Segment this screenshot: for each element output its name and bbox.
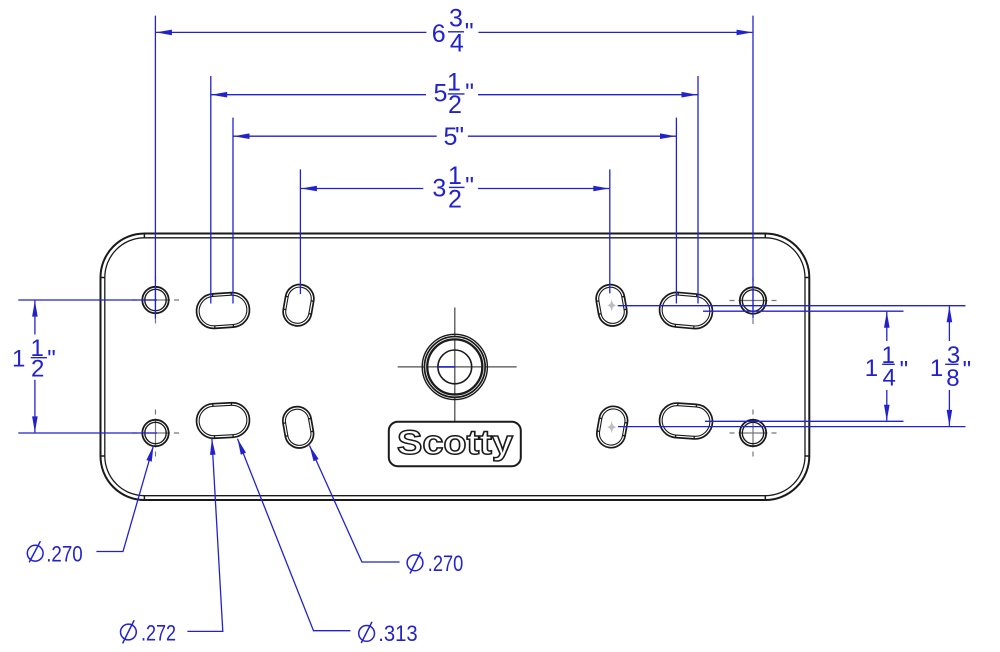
svg-text:": " (455, 122, 464, 150)
svg-text:4: 4 (883, 364, 896, 391)
svg-text:5: 5 (434, 80, 448, 108)
arrow 5-1/2 left (211, 92, 227, 98)
ext line right y421.3 (705, 420, 904, 422)
diameter symbol .270 bottom-left (27, 545, 43, 561)
crosshair top-left hole vertical (155, 277, 157, 324)
arrow 5-1/2 right (682, 92, 698, 98)
svg-text:": " (465, 18, 474, 46)
svg-text:1: 1 (930, 355, 943, 382)
leader dia .272 (187, 439, 222, 632)
ext line 3-1/2 right (609, 169, 611, 293)
ext line 5 right (675, 118, 677, 304)
leader dia .313 (238, 439, 351, 631)
ext line right y311.2 (703, 310, 904, 312)
ext line 6-3/4 left (154, 16, 156, 319)
tilted slot bottom-right (595, 404, 630, 450)
arrow 6-3/4 left (156, 30, 172, 36)
svg-text:3: 3 (449, 5, 463, 33)
svg-text:1: 1 (865, 355, 878, 382)
diameter symbol .272 (120, 624, 136, 640)
arrow 1-3/8 up (947, 306, 953, 322)
crosshair bottom-left hole vertical (155, 410, 157, 457)
svg-text:.270: .270 (46, 541, 82, 566)
crosshair bottom-left hole horizontal (132, 432, 179, 434)
center hole (422, 334, 487, 399)
diameter symbol .270 bottom-right (407, 555, 423, 571)
ext line 5-1/2 left (210, 76, 212, 304)
svg-text:3: 3 (432, 174, 446, 202)
svg-text:2: 2 (448, 91, 462, 119)
center hole crosshair (398, 308, 517, 422)
arrow leader .270 left (146, 446, 153, 462)
ext line 1-1/2 bottom (18, 432, 157, 434)
tilted slot top-left (281, 282, 316, 328)
arrow 1-3/8 down (947, 410, 953, 426)
ext line 3-1/2 left (299, 169, 301, 294)
svg-text:2: 2 (448, 185, 462, 213)
arrow 6-3/4 right (737, 30, 753, 36)
leader dia .270 left (96, 446, 153, 552)
crosshair top-right hole vertical (752, 277, 754, 324)
tilted slot bottom-left (281, 404, 316, 450)
dim line 1-3/8 (948, 306, 950, 341)
arrow leader .272 (210, 439, 216, 455)
ext line 1-1/2 top (18, 299, 157, 301)
svg-text:": " (963, 357, 972, 384)
fraction bar 1/2 left (31, 357, 47, 359)
leader dia .270 right (310, 446, 400, 563)
arrowheads (32, 30, 952, 462)
plate outline (101, 234, 810, 501)
svg-text:4: 4 (450, 29, 464, 57)
center hole blue tick (438, 366, 455, 368)
slot obround bottom-left (196, 402, 251, 439)
svg-text:.272: .272 (141, 620, 176, 645)
svg-text:8: 8 (946, 365, 959, 392)
slot obround top-left (195, 291, 250, 329)
dimension texts (12, 5, 971, 392)
tilted slot top-right (594, 282, 629, 328)
svg-text:1: 1 (12, 345, 25, 372)
svg-text:.270: .270 (428, 551, 464, 576)
arrow 3-1/2 left (301, 186, 317, 192)
svg-text:.313: .313 (378, 621, 418, 646)
svg-text:": " (465, 172, 474, 200)
circle hole top-left (142, 287, 168, 313)
arrow 1-1/4 down (884, 405, 890, 421)
star marker bottom-right slot (607, 421, 616, 434)
svg-text:6: 6 (432, 20, 446, 48)
star marker top-right slot (607, 299, 616, 312)
fraction bar 3/4 (448, 31, 464, 33)
svg-text:": " (900, 357, 909, 384)
leader texts (46, 541, 463, 646)
arrow 1-1/2 down (32, 416, 38, 432)
arrow leader .313 (238, 439, 246, 455)
crosshair top-left hole horizontal (132, 299, 179, 301)
ext line 6-3/4 right (752, 16, 754, 319)
dim line 1-1/4 (886, 312, 888, 341)
arrow leader .270 right (310, 446, 319, 462)
svg-text:Scotty: Scotty (397, 424, 513, 462)
ext line 5-1/2 right (697, 76, 699, 304)
arrow 1-1/4 up (884, 312, 890, 328)
diameter symbols (27, 541, 423, 643)
crosshair bottom-right hole vertical (752, 410, 754, 457)
fraction bar 1/2 top (448, 93, 465, 95)
dim line 3-1/2 (301, 188, 423, 190)
dim line 6-3/4 (156, 31, 426, 33)
svg-text:": " (465, 79, 474, 107)
arrow 1-1/2 up (32, 301, 38, 317)
fraction bar 3/8 (945, 363, 958, 365)
ext line 5 left (232, 118, 234, 304)
arrow 3-1/2 right (593, 186, 609, 192)
dim line 5 (234, 135, 437, 137)
diameter symbol .313 (359, 626, 375, 642)
svg-text:2: 2 (31, 356, 44, 383)
circle hole bottom-left (142, 420, 168, 446)
svg-text:": " (47, 346, 56, 373)
circle hole bottom-right (740, 420, 766, 446)
ext line right y305.7 (618, 305, 966, 307)
dim line 1-1/2 (34, 301, 36, 335)
fraction bar 1/4 (882, 363, 895, 365)
arrow 5 left (234, 133, 250, 139)
fraction bar 3-1/2 (449, 186, 465, 188)
Scotty logo box (389, 422, 521, 467)
ext line right y426.6 (618, 426, 966, 428)
crosshair bottom-right hole horizontal (730, 432, 777, 434)
arrow 5 right (660, 133, 676, 139)
slot obround bottom-right (658, 402, 713, 440)
circle hole top-right (740, 287, 766, 313)
dim line 5-1/2 (211, 94, 426, 96)
slot obround top-right (658, 291, 714, 330)
crosshair top-right hole horizontal (730, 300, 777, 302)
